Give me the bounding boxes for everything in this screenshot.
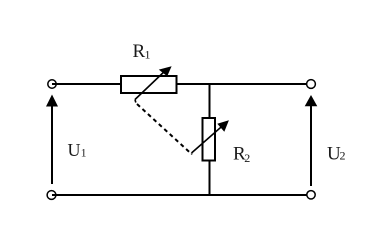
svg-text:U: U — [68, 140, 81, 160]
svg-text:2: 2 — [340, 149, 346, 163]
svg-text:2: 2 — [244, 151, 250, 165]
svg-text:1: 1 — [81, 148, 87, 160]
svg-text:1: 1 — [145, 48, 151, 62]
